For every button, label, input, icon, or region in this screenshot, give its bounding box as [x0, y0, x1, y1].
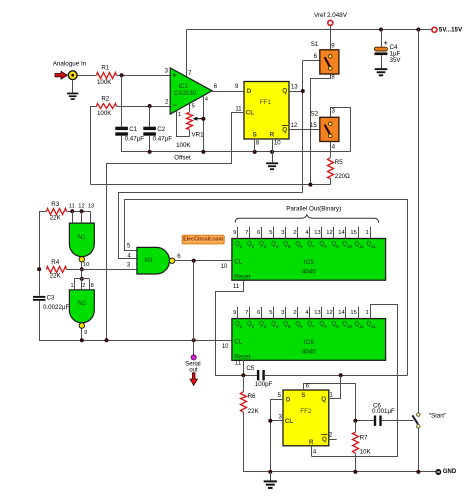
wire right 5V rail down — [418, 30, 420, 414]
svg-text:Q5: Q5 — [283, 321, 291, 328]
wire FF1 CL route — [107, 106, 245, 340]
wire FF2 Qbar stub — [329, 433, 337, 440]
svg-text:10: 10 — [274, 141, 281, 147]
svg-text:22K: 22K — [50, 214, 62, 221]
svg-text:13: 13 — [88, 203, 94, 209]
wire C4 bottom stub — [381, 55, 383, 68]
wire R4 to N3 pin3 — [67, 262, 137, 269]
svg-text:N1: N1 — [78, 234, 86, 241]
svg-text:Q3: Q3 — [259, 321, 267, 328]
svg-text:4040: 4040 — [302, 349, 317, 356]
svg-text:Q2: Q2 — [247, 241, 255, 248]
svg-text:Q2: Q2 — [247, 321, 255, 328]
svg-text:Q10: Q10 — [342, 241, 352, 248]
svg-text:2: 2 — [82, 283, 85, 289]
svg-text:Q11: Q11 — [367, 321, 377, 328]
ground (FF1 R) — [266, 162, 278, 170]
connector J1 Analogue In — [68, 71, 77, 80]
junction switch gnd — [416, 470, 420, 474]
resistor R2 — [97, 96, 117, 117]
svg-text:Offset: Offset — [174, 154, 191, 161]
wire C6 left — [355, 420, 373, 422]
svg-text:R: R — [270, 131, 275, 138]
junction reset FF2-Q — [339, 373, 343, 377]
svg-text:7: 7 — [245, 310, 248, 316]
wire C6 right — [382, 420, 414, 422]
svg-text:11: 11 — [235, 360, 242, 366]
svg-text:Q5: Q5 — [283, 241, 291, 248]
svg-text:Parallel Out(Binary): Parallel Out(Binary) — [286, 206, 341, 213]
svg-text:R2: R2 — [101, 96, 109, 103]
svg-text:Q: Q — [321, 396, 326, 403]
wire offset bus — [122, 152, 351, 162]
junction N1 pin12 — [80, 209, 84, 213]
svg-text:Q9: Q9 — [331, 321, 339, 328]
wire R6 bottom leg — [244, 413, 436, 472]
resistor R3 — [47, 201, 67, 221]
wire serial out leg — [193, 261, 195, 355]
svg-text:+: + — [384, 40, 388, 47]
svg-text:S: S — [301, 392, 306, 399]
resistor R1 — [97, 65, 117, 86]
label Vref 2.048V — [314, 12, 348, 19]
wire C1 top stub — [121, 75, 123, 127]
wire N2 input tie — [81, 269, 83, 279]
wire reset line left — [215, 375, 258, 377]
svg-text:Q8: Q8 — [319, 241, 327, 248]
svg-text:CL: CL — [246, 110, 255, 117]
svg-text:IC6: IC6 — [304, 339, 314, 346]
svg-text:C2: C2 — [157, 126, 165, 133]
junction C4 tap — [379, 28, 383, 32]
svg-text:Q6: Q6 — [295, 241, 303, 248]
svg-text:Q10: Q10 — [342, 321, 352, 328]
wire reset line right — [265, 375, 408, 377]
wire FF1-Q wrap to N3 pin4 — [119, 193, 303, 260]
svg-text:IC5: IC5 — [304, 259, 314, 266]
svg-text:15: 15 — [310, 123, 317, 129]
wire R2 to IC1 pin2 — [117, 99, 171, 106]
junction offset FF1-R — [270, 150, 274, 154]
switch S2 — [311, 111, 339, 142]
svg-text:12: 12 — [326, 230, 332, 236]
wire N2 out stub — [82, 328, 88, 340]
label Analogue In — [53, 60, 87, 67]
svg-text:11: 11 — [69, 203, 75, 209]
ground (input) — [67, 93, 78, 100]
junction R1/C1 — [120, 73, 124, 77]
junction VR1 wiper — [201, 117, 205, 121]
svg-text:Q4: Q4 — [271, 321, 279, 328]
svg-text:10: 10 — [83, 262, 89, 268]
svg-text:FF1: FF1 — [260, 99, 272, 106]
svg-text:R7: R7 — [360, 434, 368, 441]
wire S2 pin3 wrap — [331, 108, 351, 152]
svg-text:R5: R5 — [335, 159, 343, 166]
wire N3 out to IC5 CL — [175, 254, 232, 270]
svg-text:R1: R1 — [101, 65, 109, 72]
svg-text:1: 1 — [178, 112, 181, 118]
nand gate N3 — [137, 247, 175, 274]
flip-flop FF1 — [244, 82, 289, 140]
counter IC6 4040 — [232, 319, 386, 361]
wire C1 bottom stub — [121, 136, 123, 152]
junction C6/R7/S — [353, 419, 357, 423]
wire R2-R5 bus — [91, 184, 331, 186]
svg-text:Q6: Q6 — [295, 321, 303, 328]
svg-text:15: 15 — [350, 230, 356, 236]
svg-text:Q9: Q9 — [331, 241, 339, 248]
op-amp IC1 CA3130 — [170, 68, 212, 114]
ground (main) — [264, 472, 277, 489]
svg-text:D: D — [286, 397, 291, 404]
junction offset FF1-S — [253, 150, 257, 154]
svg-text:14: 14 — [338, 230, 345, 236]
junction R2/C2 — [148, 104, 152, 108]
svg-text:N2: N2 — [78, 300, 86, 307]
IC5 output stubs — [233, 227, 370, 239]
wire IC1 output pin6 — [212, 84, 244, 92]
svg-text:0.47µF: 0.47µF — [153, 135, 173, 142]
junction offset C2 — [148, 150, 152, 154]
svg-text:5: 5 — [192, 104, 195, 110]
wire op-amp pin7 riser — [187, 30, 193, 77]
ground (C4) — [375, 68, 388, 76]
svg-text:100K: 100K — [97, 110, 112, 117]
svg-text:12: 12 — [326, 310, 332, 316]
svg-text:CL: CL — [285, 418, 294, 425]
svg-text:C3: C3 — [47, 295, 55, 302]
junction N2 tie — [80, 277, 84, 281]
capacitor C5 — [246, 365, 272, 388]
junction right rail tap — [416, 28, 420, 32]
wire N1 out stub — [82, 262, 90, 269]
svg-text:Q11: Q11 — [354, 241, 364, 248]
svg-text:0.47µF: 0.47µF — [125, 135, 145, 142]
junction N1 out — [80, 267, 84, 271]
potentiometer VR1 — [176, 113, 204, 150]
svg-text:2: 2 — [293, 310, 296, 316]
wire C3 bottom leg — [40, 301, 232, 341]
junction N3 out — [192, 259, 196, 263]
svg-text:GND: GND — [443, 469, 457, 475]
svg-text:5: 5 — [269, 230, 272, 236]
wire Vref to S1 pin9 — [331, 25, 336, 49]
svg-text:R4: R4 — [51, 259, 59, 266]
svg-text:12: 12 — [78, 203, 84, 209]
svg-text:100pF: 100pF — [255, 381, 273, 388]
svg-text:13: 13 — [314, 230, 320, 236]
svg-text:5: 5 — [269, 310, 272, 316]
svg-text:Q: Q — [282, 127, 287, 134]
wire IC6 reset stub — [235, 359, 244, 375]
svg-text:4040: 4040 — [302, 269, 317, 276]
svg-text:0.001µF: 0.001µF — [372, 408, 395, 415]
svg-text:Analogue In: Analogue In — [53, 60, 87, 67]
wire FF1 Q out — [289, 84, 303, 91]
switch Start — [412, 413, 446, 428]
junction R7 gnd — [353, 470, 357, 474]
svg-text:14: 14 — [338, 310, 345, 316]
junction S1-8 on bus — [308, 183, 312, 187]
node Serial out — [185, 355, 200, 386]
svg-text:FF2: FF2 — [300, 408, 312, 415]
resistor R5 — [328, 158, 351, 180]
svg-text:S: S — [252, 131, 257, 138]
svg-text:220Ω: 220Ω — [335, 173, 350, 180]
svg-text:1: 1 — [70, 283, 73, 289]
wire reset wrap to N3 pin5 — [125, 200, 408, 376]
svg-text:Vref 2.048V: Vref 2.048V — [314, 12, 348, 19]
svg-text:+: + — [173, 72, 177, 79]
wire FF2 CL stub — [270, 414, 283, 420]
capacitor C1 — [115, 126, 144, 142]
wire C2 bottom stub — [149, 136, 151, 152]
svg-text:3: 3 — [281, 310, 284, 316]
wire connector ground stub — [72, 80, 74, 93]
wire FF1 R stub — [273, 139, 282, 162]
svg-text:C1: C1 — [129, 126, 137, 133]
capacitor C6 — [372, 402, 395, 426]
svg-text:9: 9 — [233, 230, 236, 236]
brace parallel out — [235, 215, 378, 223]
junction gnd symbol — [268, 470, 272, 474]
svg-text:6: 6 — [257, 310, 260, 316]
svg-text:N3: N3 — [144, 257, 152, 264]
wire R2 left leg — [91, 107, 97, 185]
svg-text:Q11: Q11 — [367, 241, 377, 248]
svg-text:100K: 100K — [176, 142, 191, 149]
wire FF2 Q route — [329, 376, 341, 399]
svg-text:5V...15V: 5V...15V — [439, 27, 463, 34]
svg-text:6: 6 — [257, 230, 260, 236]
counter IC5 4040 — [232, 239, 386, 281]
svg-text:Q11: Q11 — [354, 321, 364, 328]
label Parallel Out(Binary) — [286, 206, 341, 213]
resistor R7 — [353, 421, 372, 472]
capacitor C3 — [33, 295, 69, 311]
svg-text:Q7: Q7 — [307, 321, 315, 328]
junction reset R6 — [241, 373, 245, 377]
wire IC6 pin1 to FF2 R — [312, 305, 398, 457]
svg-text:Q8: Q8 — [319, 321, 327, 328]
svg-text:Q4: Q4 — [271, 241, 279, 248]
wire 5V supply rail (top) — [187, 29, 433, 31]
capacitor C4 — [374, 40, 401, 64]
svg-text:10K: 10K — [360, 449, 372, 456]
wire FF2 D route — [271, 393, 284, 472]
junction clock FF1CL — [105, 338, 109, 342]
svg-text:R3: R3 — [51, 201, 59, 208]
svg-text:VR1: VR1 — [192, 131, 205, 138]
svg-text:8: 8 — [91, 283, 94, 289]
switch S1 — [311, 41, 339, 74]
logo ElecCircuit.com — [182, 235, 224, 244]
wire R3 left leg — [40, 212, 47, 296]
svg-text:R: R — [309, 439, 314, 446]
svg-text:1: 1 — [366, 310, 369, 316]
wire FF1-Q / S1-6 vertical — [302, 61, 304, 193]
svg-text:22K: 22K — [50, 272, 62, 279]
svg-text:35V: 35V — [390, 57, 402, 64]
terminal Vref — [328, 20, 333, 25]
wire N2 pin bar — [70, 279, 93, 290]
svg-text:Q7: Q7 — [307, 241, 315, 248]
svg-text:3: 3 — [281, 230, 284, 236]
svg-text:−: − — [173, 102, 177, 109]
nand gate N1 — [69, 223, 94, 262]
svg-text:2: 2 — [293, 230, 296, 236]
wire R1 to IC1 pin3 — [117, 69, 171, 76]
svg-text:Q: Q — [282, 88, 287, 95]
svg-text:CA3130: CA3130 — [174, 90, 197, 97]
svg-text:Q: Q — [322, 436, 327, 443]
wire IC1 pin5 stub — [190, 103, 195, 112]
wire R3 to N1 pins — [67, 203, 94, 211]
terminal GND — [436, 469, 457, 475]
wire S1 pin6 — [303, 54, 320, 61]
wire R5 bottom — [330, 179, 332, 185]
resistor R4 — [47, 259, 67, 279]
wire FF2 R stub — [312, 446, 317, 456]
junction offset pin4 — [201, 150, 205, 154]
IC6 output stubs — [233, 307, 370, 319]
svg-text:C5: C5 — [246, 365, 254, 372]
wire FF2 S route — [304, 384, 356, 421]
resistor R6 — [241, 375, 260, 415]
junction clock N2 — [80, 338, 84, 342]
svg-text:11: 11 — [233, 284, 240, 290]
svg-text:S2: S2 — [311, 111, 319, 118]
wire S2 pin4 stub — [331, 142, 336, 158]
wire C4 top stub — [381, 30, 383, 48]
svg-text:ElecCircuit.com: ElecCircuit.com — [183, 237, 223, 243]
flip-flop FF2 — [283, 390, 329, 446]
label IC6 clock pin — [222, 344, 229, 350]
svg-text:CL: CL — [234, 338, 242, 345]
svg-text:Q1: Q1 — [235, 321, 243, 328]
svg-text:12: 12 — [291, 123, 298, 129]
svg-text:7: 7 — [245, 230, 248, 236]
wire FF1 S stub — [255, 139, 260, 152]
svg-text:Q1: Q1 — [235, 241, 243, 248]
capacitor C2 — [143, 126, 172, 142]
junction FF2 CL gnd — [268, 419, 272, 423]
svg-text:D: D — [247, 88, 252, 95]
svg-text:100K: 100K — [97, 79, 112, 86]
terminal 5V...15V — [432, 27, 463, 34]
svg-text:0.0022µF: 0.0022µF — [43, 304, 69, 311]
wire C2 top stub — [149, 106, 151, 127]
input arrow — [55, 71, 67, 79]
wire S1 pin8 route — [311, 74, 336, 184]
svg-text:1: 1 — [366, 230, 369, 236]
svg-text:11: 11 — [235, 106, 242, 112]
wire IC1 pin4 leg — [204, 96, 209, 152]
junction N1 pin11 — [70, 209, 74, 213]
svg-text:15: 15 — [350, 310, 356, 316]
junction FF1 Q node — [301, 89, 305, 93]
wire J1 to R1 — [77, 75, 96, 77]
wire switch to GND line — [418, 428, 420, 472]
svg-text:CL: CL — [234, 258, 242, 265]
svg-text:"Start": "Start" — [429, 413, 446, 420]
svg-text:10: 10 — [222, 344, 229, 350]
svg-text:Q3: Q3 — [259, 241, 267, 248]
svg-text:13: 13 — [291, 84, 298, 90]
svg-text:13: 13 — [314, 310, 320, 316]
svg-text:22K: 22K — [248, 408, 260, 415]
svg-text:10: 10 — [221, 264, 228, 270]
wire N1 pin stubs — [73, 211, 91, 223]
svg-text:9: 9 — [233, 310, 236, 316]
svg-text:Reset: Reset — [234, 274, 250, 281]
wire IC5 reset route — [216, 281, 244, 376]
svg-text:9: 9 — [84, 330, 87, 336]
svg-text:R6: R6 — [248, 393, 256, 400]
wire FF1 Qbar to S2 — [289, 123, 320, 130]
junction clock serial — [192, 338, 196, 342]
junction R4 left — [37, 267, 41, 271]
nand gate N2 — [69, 290, 94, 329]
svg-text:S1: S1 — [311, 41, 319, 48]
wire IC1 pin1 stub — [177, 111, 190, 137]
